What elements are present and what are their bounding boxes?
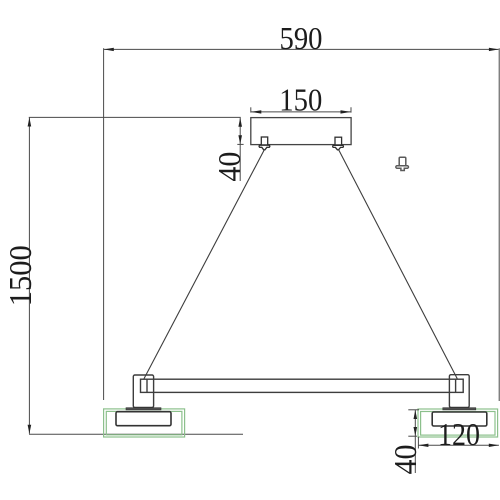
suspension wire left	[144, 150, 265, 380]
bar end line right	[455, 379, 457, 392]
cable gripper left (under plate)	[259, 137, 270, 150]
dimension 150 line	[251, 107, 351, 112]
extension line right (590)	[498, 48, 500, 401]
horizontal bar	[141, 379, 464, 392]
connector block right	[449, 375, 469, 408]
svg-text:40: 40	[387, 445, 423, 475]
svg-text:590: 590	[280, 20, 323, 56]
extension line left (590)	[103, 48, 105, 400]
gripper icon (detail symbol, top right)	[396, 157, 409, 170]
dimension 120 arrows	[418, 444, 498, 447]
connector block left	[133, 375, 153, 407]
svg-text:1500: 1500	[2, 245, 38, 306]
suspension wire right	[339, 150, 458, 380]
lamp body left	[116, 412, 171, 426]
collar right	[443, 408, 476, 410]
dimension 590 arrows	[104, 48, 499, 51]
glass panel right (green)	[418, 409, 498, 437]
collar left	[126, 408, 161, 410]
svg-text:40: 40	[211, 152, 247, 182]
dimension 40 top arrows	[238, 118, 242, 144]
bar end line left	[146, 379, 148, 392]
dimension 1500 arrows	[28, 118, 32, 434]
dimension 40 right arrows	[414, 410, 418, 436]
dimension 40 right	[408, 410, 419, 473]
dimension 150 arrows	[251, 110, 351, 113]
glass panel left (green)	[104, 409, 185, 437]
dimension 40 top	[237, 118, 243, 181]
svg-text:150: 150	[279, 81, 322, 117]
dimension 590 line	[104, 48, 499, 50]
baseline (bottom reference line)	[29, 433, 243, 435]
svg-text:120: 120	[438, 416, 480, 452]
dimension 120	[418, 437, 499, 449]
ceiling plate	[251, 118, 351, 145]
dimension 1500	[29, 117, 241, 433]
cable gripper right (under plate)	[333, 137, 344, 150]
lamp body right	[432, 412, 487, 426]
